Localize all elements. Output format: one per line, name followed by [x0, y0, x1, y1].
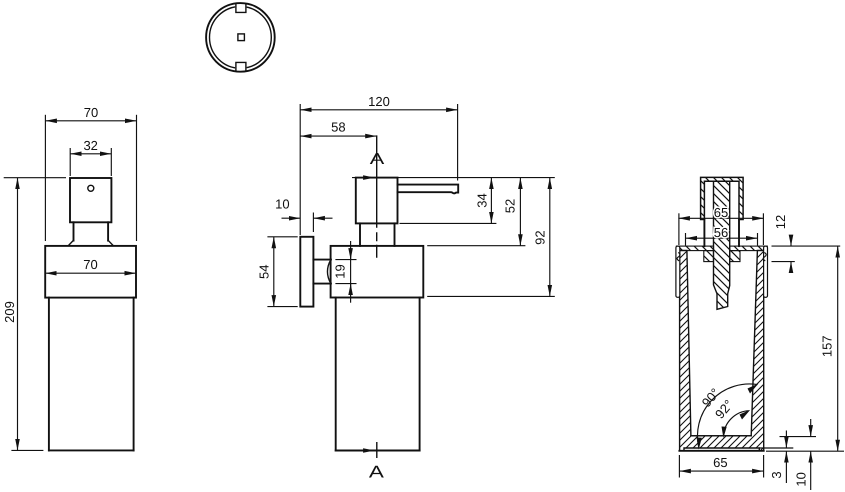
svg-text:32: 32: [83, 138, 97, 153]
svg-text:65: 65: [714, 205, 728, 220]
dim 10 extension right: [312, 213, 314, 233]
bracket arm bottom: [313, 283, 331, 285]
dim 65 top: [678, 217, 763, 219]
dim 32: [70, 153, 111, 155]
collar sleeve left: [676, 246, 680, 297]
dim 3 lines: [785, 431, 787, 449]
dim 12 lines: [790, 235, 792, 246]
dim 10 right lines: [810, 419, 812, 437]
body sides: [335, 298, 337, 451]
svg-text:10: 10: [793, 472, 808, 486]
svg-text:120: 120: [368, 94, 390, 109]
dim 209 extension bottom: [11, 449, 43, 451]
pump top extension line: [352, 177, 555, 179]
spout: [398, 185, 459, 194]
flange plate right: [730, 246, 768, 251]
neck flare left: [69, 240, 74, 245]
dim 3 extension: [759, 447, 793, 449]
dim 70 top extension lines: [44, 115, 46, 241]
collar sleeve right: [764, 246, 768, 297]
top view inner circle: [210, 7, 272, 69]
neck slot right side: [738, 220, 740, 247]
pump neck sides: [359, 223, 361, 246]
cup inner floor line: [691, 435, 751, 437]
svg-text:56: 56: [714, 225, 728, 240]
pump neck left side: [73, 222, 75, 240]
svg-text:52: 52: [502, 199, 517, 213]
neck flare right: [108, 240, 113, 245]
svg-text:157: 157: [820, 335, 835, 357]
dim 157: [837, 246, 839, 451]
svg-text:65: 65: [713, 455, 727, 470]
dim 10 arrows: [282, 217, 301, 219]
bottom notch erase: [235, 63, 246, 70]
svg-text:92: 92: [532, 230, 547, 244]
dim 54 extensions: [267, 236, 297, 238]
pump head side: [356, 178, 398, 224]
dim 70 collar: [45, 272, 136, 274]
pump head section walls: [701, 177, 744, 219]
dim 19 line: [350, 241, 352, 303]
bracket arm arc: [327, 260, 330, 284]
dim 120 extension left: [299, 104, 301, 235]
body bottom: [336, 450, 420, 452]
wall plate: [300, 237, 313, 307]
dim 92 extension: [427, 295, 555, 297]
dim 209: [17, 178, 19, 451]
collar side: [331, 246, 424, 298]
svg-text:54: 54: [257, 264, 272, 278]
spring coil mark right: [763, 253, 766, 261]
top notch erase: [235, 5, 246, 12]
body left side: [48, 298, 50, 451]
top notch outline: [236, 4, 246, 13]
svg-text:A: A: [369, 463, 385, 482]
top rim extension line: [772, 245, 841, 247]
pump hole: [88, 185, 94, 191]
dim 56 extensions: [685, 233, 687, 246]
dim 120: [300, 109, 457, 111]
svg-text:209: 209: [2, 301, 17, 323]
section line: [376, 136, 378, 257]
angle arc 90: [697, 384, 757, 447]
top view outer circle: [206, 3, 275, 72]
dim 19 extensions: [335, 259, 356, 261]
dim 56: [686, 237, 758, 239]
dim 70 top: [45, 120, 136, 122]
dim 52 extension: [427, 245, 525, 247]
dim 34 extension: [400, 222, 497, 224]
body bottom: [49, 449, 134, 451]
dim 120 extension right: [457, 104, 459, 181]
dim 12 extension: [772, 261, 795, 263]
bottom extension line: [766, 450, 844, 452]
angle arc 92: [723, 411, 748, 436]
glass cup section: [680, 250, 764, 450]
thread block right: [730, 251, 740, 262]
center square: [238, 34, 245, 41]
pump piston section: [714, 181, 730, 309]
flange plate left: [676, 246, 713, 251]
bottom notch outline: [236, 62, 246, 71]
pump head: [70, 178, 111, 222]
svg-text:34: 34: [474, 193, 489, 207]
spring coil mark left: [677, 253, 680, 261]
cup bottom edge: [679, 450, 763, 452]
dim 58: [300, 135, 377, 137]
section arrow top: [355, 177, 375, 179]
section tick bottom: [376, 443, 378, 458]
thread block left: [704, 251, 714, 262]
dim 65 top extensions: [678, 213, 680, 245]
svg-text:3: 3: [769, 471, 784, 478]
pump neck right side: [107, 222, 109, 240]
section arrow bottom: [354, 450, 375, 452]
dim 10 extension: [780, 436, 817, 438]
dim 54: [273, 237, 275, 307]
svg-text:10: 10: [275, 197, 289, 212]
svg-text:19: 19: [333, 264, 348, 278]
bracket arm top: [313, 259, 331, 261]
dim 92: [549, 178, 551, 297]
body right side: [133, 298, 135, 451]
dim 65 bottom: [679, 470, 763, 472]
dim 34: [490, 178, 492, 224]
svg-text:58: 58: [331, 120, 345, 135]
dim 65 bottom extensions: [678, 455, 680, 478]
svg-text:70: 70: [84, 105, 98, 120]
svg-text:70: 70: [83, 257, 97, 272]
dim 52: [519, 178, 521, 246]
neck slot left side: [703, 220, 705, 247]
dim 32 extension lines: [69, 148, 71, 176]
collar: [45, 246, 136, 298]
svg-text:12: 12: [773, 215, 788, 229]
dim 209 extension top: [4, 177, 66, 179]
